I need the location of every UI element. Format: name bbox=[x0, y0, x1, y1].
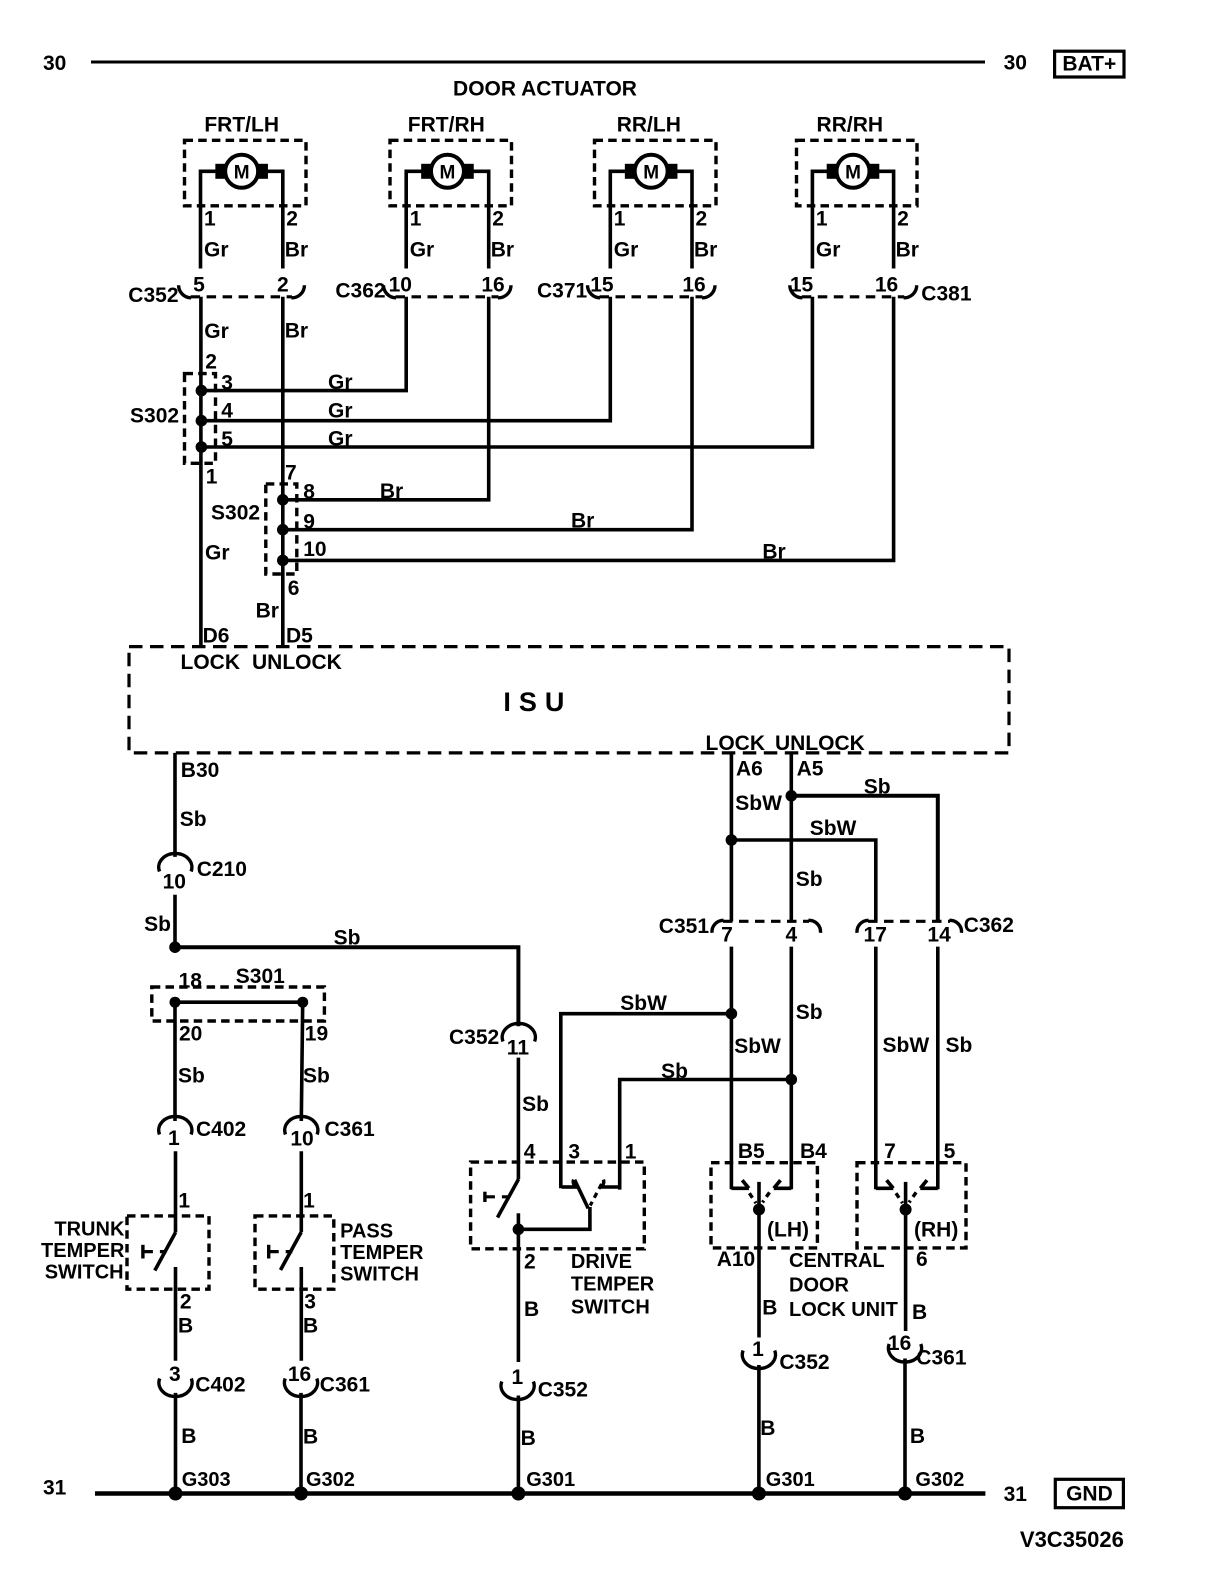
wire Sb bus to drive switch bbox=[175, 947, 518, 1026]
wire Sb S301 pin20 down bbox=[173, 1002, 177, 1121]
svg-text:Gr: Gr bbox=[816, 239, 841, 262]
svg-text:DOOR: DOOR bbox=[789, 1275, 850, 1297]
svg-text:DOOR ACTUATOR: DOOR ACTUATOR bbox=[453, 77, 637, 100]
trunk temper switch box bbox=[127, 1216, 209, 1289]
svg-text:1: 1 bbox=[625, 1141, 637, 1164]
svg-text:16: 16 bbox=[875, 274, 898, 297]
svg-text:7: 7 bbox=[884, 1140, 896, 1163]
wire Sb C351 pin4 to lock unit bbox=[789, 947, 793, 1190]
svg-text:GND: GND bbox=[1066, 1483, 1113, 1506]
svg-text:30: 30 bbox=[1004, 52, 1027, 75]
svg-text:UNLOCK: UNLOCK bbox=[775, 732, 865, 755]
svg-text:G301: G301 bbox=[526, 1469, 575, 1491]
svg-text:1: 1 bbox=[168, 1127, 180, 1150]
svg-text:20: 20 bbox=[179, 1022, 202, 1045]
svg-text:(LH): (LH) bbox=[767, 1219, 809, 1242]
svg-text:Br: Br bbox=[256, 599, 279, 622]
svg-text:2: 2 bbox=[286, 208, 298, 231]
svg-text:6: 6 bbox=[916, 1248, 928, 1271]
lock actuator RH contacts bbox=[876, 1187, 894, 1191]
svg-text:1: 1 bbox=[410, 208, 422, 231]
svg-text:C402: C402 bbox=[196, 1118, 246, 1141]
svg-text:SbW: SbW bbox=[620, 992, 667, 1015]
svg-text:15: 15 bbox=[790, 274, 814, 297]
wire Gr RR/RH pin15 to S302 pin5 bbox=[201, 297, 812, 447]
svg-text:B: B bbox=[303, 1426, 318, 1449]
wire Br FRT/LH pin2 to ISU D5 bbox=[281, 297, 285, 647]
wire trunk switch pin2 down bbox=[174, 1267, 178, 1361]
connector C352 pin11 bbox=[502, 1023, 535, 1041]
svg-text:4: 4 bbox=[221, 400, 233, 423]
svg-text:5: 5 bbox=[193, 274, 205, 297]
svg-text:16: 16 bbox=[682, 274, 705, 297]
wire pass switch pin3 down bbox=[299, 1267, 303, 1361]
svg-text:1: 1 bbox=[206, 466, 218, 489]
connector C352 bbox=[191, 295, 292, 298]
svg-text:B: B bbox=[762, 1297, 777, 1320]
svg-text:C381: C381 bbox=[921, 282, 972, 305]
svg-text:Br: Br bbox=[896, 239, 919, 262]
svg-text:7: 7 bbox=[721, 924, 733, 947]
svg-text:S302: S302 bbox=[130, 404, 179, 427]
wire Sb ISU A5 down bbox=[789, 753, 793, 921]
svg-text:31: 31 bbox=[1004, 1483, 1028, 1506]
wire B to G302 bbox=[299, 1393, 303, 1494]
junction A6 SbW bbox=[726, 834, 738, 846]
svg-text:17: 17 bbox=[864, 924, 887, 947]
svg-text:C361: C361 bbox=[320, 1374, 371, 1397]
svg-text:G301: G301 bbox=[766, 1469, 815, 1491]
wire Gr FRT/RH pin10 to S302 pin3 bbox=[201, 297, 406, 391]
svg-text:DRIVE: DRIVE bbox=[571, 1251, 632, 1273]
motor M RR/LH wire right bbox=[677, 171, 692, 268]
svg-text:8: 8 bbox=[303, 481, 315, 504]
wire Sb S301 pin19 down bbox=[301, 1002, 302, 1121]
svg-text:C352: C352 bbox=[449, 1026, 499, 1049]
svg-text:3: 3 bbox=[169, 1363, 181, 1386]
svg-text:SbW: SbW bbox=[734, 1035, 781, 1058]
svg-text:11: 11 bbox=[507, 1037, 530, 1060]
svg-text:LOCK UNIT: LOCK UNIT bbox=[789, 1299, 898, 1321]
wire 30/BAT+ top rail bbox=[91, 61, 985, 64]
svg-text:RR/RH: RR/RH bbox=[817, 114, 884, 137]
wire to pass switch bbox=[299, 1151, 303, 1232]
door actuator motor RR/RH box bbox=[797, 140, 918, 206]
svg-text:2: 2 bbox=[180, 1291, 192, 1314]
svg-text:B: B bbox=[912, 1301, 927, 1324]
wire SbW C351 pin7 to lock unit bbox=[730, 947, 734, 1190]
motor M FRT/LH symbol bbox=[225, 155, 258, 188]
motor M FRT/RH wire left bbox=[406, 171, 422, 268]
svg-text:2: 2 bbox=[524, 1251, 536, 1274]
svg-text:31: 31 bbox=[43, 1477, 67, 1500]
drive contact 3 blade bbox=[575, 1180, 589, 1209]
drive contact 3 hook bbox=[562, 1185, 576, 1189]
svg-text:Br: Br bbox=[380, 480, 403, 503]
junction Sb drive pin1 bbox=[786, 1074, 798, 1086]
svg-text:5: 5 bbox=[221, 428, 233, 451]
svg-text:19: 19 bbox=[305, 1022, 328, 1045]
connector C351 bbox=[723, 920, 809, 923]
motor M RR/LH wire left bbox=[610, 171, 625, 268]
switch blade pass bbox=[281, 1232, 302, 1270]
motor M RR/RH wire right bbox=[879, 171, 894, 268]
wire SbW A6 to C362 pin17 bbox=[731, 840, 875, 921]
svg-text:Sb: Sb bbox=[796, 1001, 823, 1024]
motor M RR/RH symbol bbox=[837, 155, 870, 188]
connector C352 bottom bbox=[501, 1382, 534, 1400]
door actuator motor FRT/RH box bbox=[390, 140, 512, 206]
wire SbW C362 pin17 to lock unit RH bbox=[874, 947, 878, 1190]
wire Sb below C210 bbox=[173, 895, 177, 948]
svg-text:1: 1 bbox=[816, 208, 828, 231]
svg-text:Br: Br bbox=[762, 541, 785, 564]
svg-text:A10: A10 bbox=[717, 1248, 756, 1271]
drive contact 1 dashed bbox=[590, 1184, 601, 1206]
svg-text:G302: G302 bbox=[915, 1469, 964, 1491]
svg-text:Sb: Sb bbox=[522, 1093, 549, 1116]
wire Gr FRT/LH pin5 to ISU D6 bbox=[199, 297, 203, 647]
svg-text:M: M bbox=[643, 162, 659, 183]
svg-text:S301: S301 bbox=[236, 965, 285, 988]
junction S302 pin9 bbox=[277, 524, 289, 536]
svg-text:Sb: Sb bbox=[178, 1065, 205, 1088]
svg-text:10: 10 bbox=[389, 274, 412, 297]
svg-text:FRT/LH: FRT/LH bbox=[204, 114, 279, 137]
svg-text:Sb: Sb bbox=[864, 776, 891, 799]
svg-text:14: 14 bbox=[927, 924, 951, 947]
svg-text:B: B bbox=[303, 1315, 318, 1338]
svg-text:C362: C362 bbox=[335, 280, 385, 303]
connector C371 bbox=[600, 295, 703, 298]
svg-text:SWITCH: SWITCH bbox=[45, 1262, 124, 1284]
wire Sb to drive switch pin1 bbox=[620, 1080, 792, 1190]
wire to trunk switch bbox=[174, 1151, 178, 1232]
wire 31 ground rail bbox=[95, 1491, 985, 1496]
svg-text:C352: C352 bbox=[128, 284, 178, 307]
power BAT+ bbox=[1055, 51, 1124, 77]
connector C361 bottom bbox=[284, 1379, 317, 1397]
svg-text:C351: C351 bbox=[659, 915, 710, 938]
svg-text:Br: Br bbox=[285, 320, 308, 343]
connector C362 lower bbox=[868, 920, 950, 923]
connector C361 bbox=[285, 1116, 318, 1134]
svg-text:PASS: PASS bbox=[340, 1221, 393, 1243]
svg-text:SWITCH: SWITCH bbox=[340, 1264, 419, 1286]
switch blade trunk bbox=[155, 1233, 176, 1271]
door actuator motor FRT/LH box bbox=[185, 140, 307, 206]
junction S302 pin10 bbox=[277, 555, 289, 567]
junction ground G302 bbox=[294, 1487, 308, 1501]
splice S302 box A bbox=[185, 374, 216, 464]
splice S302 box B bbox=[266, 484, 297, 574]
svg-text:2: 2 bbox=[492, 208, 504, 231]
connector C362 bbox=[396, 295, 499, 298]
svg-text:G303: G303 bbox=[182, 1469, 231, 1491]
motor M RR/LH symbol bbox=[635, 155, 668, 188]
svg-text:Gr: Gr bbox=[204, 320, 229, 343]
wire B to G302 right bbox=[903, 1359, 907, 1494]
wire drive selector bbox=[518, 1207, 590, 1229]
svg-text:10: 10 bbox=[290, 1128, 313, 1151]
junction ground G302 right bbox=[898, 1487, 912, 1501]
svg-text:Sb: Sb bbox=[144, 913, 171, 936]
svg-text:Sb: Sb bbox=[334, 927, 361, 950]
svg-text:2: 2 bbox=[205, 351, 217, 374]
svg-text:B: B bbox=[181, 1425, 196, 1448]
drive contact 1 hook bbox=[601, 1185, 620, 1189]
motor M RR/RH wire left bbox=[812, 171, 827, 268]
junction ground G301 bbox=[511, 1487, 525, 1501]
junction A5 Sb bbox=[786, 790, 798, 802]
svg-text:16: 16 bbox=[288, 1363, 311, 1386]
svg-text:S302: S302 bbox=[211, 502, 260, 525]
junction S301 pin19 bbox=[297, 997, 308, 1008]
svg-text:1: 1 bbox=[512, 1366, 524, 1389]
switch actuator trunk bbox=[141, 1245, 144, 1259]
wire B to G303 bbox=[174, 1393, 178, 1494]
svg-text:B30: B30 bbox=[181, 759, 220, 782]
ISU box bbox=[129, 647, 1009, 753]
svg-text:A6: A6 bbox=[736, 758, 763, 781]
svg-text:4: 4 bbox=[785, 924, 797, 947]
svg-text:B: B bbox=[760, 1417, 775, 1440]
wire SbW ISU A6 down bbox=[730, 753, 734, 921]
svg-text:TRUNK: TRUNK bbox=[54, 1219, 125, 1241]
svg-text:C371: C371 bbox=[537, 280, 588, 303]
connector C402 bottom bbox=[159, 1379, 192, 1397]
svg-text:2: 2 bbox=[277, 274, 289, 297]
ground GND bbox=[1055, 1479, 1123, 1507]
svg-text:LOCK: LOCK bbox=[706, 732, 766, 755]
svg-text:C402: C402 bbox=[195, 1374, 245, 1397]
junction S302 pin3 bbox=[196, 385, 208, 397]
svg-text:C361: C361 bbox=[916, 1347, 967, 1370]
svg-text:B: B bbox=[910, 1425, 925, 1448]
svg-text:18: 18 bbox=[179, 970, 203, 993]
svg-text:3: 3 bbox=[221, 372, 233, 395]
svg-text:Sb: Sb bbox=[180, 808, 207, 831]
lock actuator LH contacts bbox=[731, 1187, 749, 1191]
svg-text:SWITCH: SWITCH bbox=[571, 1297, 650, 1319]
svg-text:1: 1 bbox=[204, 208, 216, 231]
wire Sb C362 pin14 to lock unit RH bbox=[936, 947, 940, 1190]
wire B to G301 bbox=[517, 1396, 521, 1494]
switch actuator drive bbox=[483, 1192, 486, 1202]
svg-text:Gr: Gr bbox=[328, 371, 353, 394]
svg-text:TEMPER: TEMPER bbox=[41, 1240, 125, 1262]
wire SbW to drive switch pin3 bbox=[561, 1014, 732, 1188]
junction S302 pin8 bbox=[277, 494, 289, 506]
door actuator motor RR/LH box bbox=[595, 140, 717, 206]
junction SbW drive pin3 bbox=[726, 1008, 738, 1020]
svg-text:CENTRAL: CENTRAL bbox=[789, 1250, 885, 1272]
svg-text:2: 2 bbox=[696, 208, 708, 231]
svg-text:6: 6 bbox=[288, 577, 300, 600]
splice S301 box bbox=[152, 987, 325, 1021]
svg-text:Gr: Gr bbox=[328, 400, 353, 423]
svg-text:M: M bbox=[234, 162, 250, 183]
wire S301 internal bbox=[175, 1000, 303, 1004]
switch blade drive bbox=[498, 1179, 519, 1218]
svg-text:Gr: Gr bbox=[328, 428, 353, 451]
svg-text:15: 15 bbox=[590, 274, 614, 297]
central door lock unit RH box bbox=[857, 1163, 966, 1248]
wire B lock unit LH down bbox=[757, 1210, 761, 1338]
svg-text:M: M bbox=[440, 162, 456, 183]
svg-text:C210: C210 bbox=[197, 858, 247, 881]
svg-text:Gr: Gr bbox=[614, 239, 639, 262]
svg-text:Sb: Sb bbox=[796, 868, 823, 891]
svg-text:Gr: Gr bbox=[204, 239, 229, 262]
wire Sb A5 to C362 pin14 bbox=[791, 796, 938, 922]
svg-text:D5: D5 bbox=[286, 625, 313, 648]
svg-text:V3C35026: V3C35026 bbox=[1020, 1527, 1124, 1552]
svg-text:M: M bbox=[845, 162, 861, 183]
svg-text:10: 10 bbox=[163, 871, 186, 894]
junction S302 pin4 bbox=[196, 415, 208, 427]
central door lock unit LH box bbox=[711, 1163, 817, 1248]
wire B to G301 right bbox=[757, 1365, 761, 1494]
motor M FRT/LH wire right bbox=[267, 171, 283, 268]
svg-text:1: 1 bbox=[752, 1338, 764, 1361]
svg-text:B: B bbox=[521, 1427, 536, 1450]
svg-text:5: 5 bbox=[944, 1140, 956, 1163]
junction S301 pin18 bbox=[170, 997, 181, 1008]
svg-text:B4: B4 bbox=[800, 1140, 827, 1163]
motor M FRT/RH wire right bbox=[473, 171, 489, 268]
svg-text:(RH): (RH) bbox=[914, 1219, 958, 1242]
svg-text:B: B bbox=[178, 1315, 193, 1338]
wire B lock unit RH down bbox=[904, 1210, 908, 1332]
wire drive common bbox=[517, 1213, 521, 1229]
svg-text:C362: C362 bbox=[964, 914, 1014, 937]
drive temper switch box bbox=[471, 1162, 645, 1249]
svg-text:A5: A5 bbox=[797, 758, 824, 781]
svg-text:B5: B5 bbox=[738, 1140, 765, 1163]
svg-text:9: 9 bbox=[303, 511, 315, 534]
svg-text:16: 16 bbox=[888, 1332, 911, 1355]
svg-text:RR/LH: RR/LH bbox=[617, 114, 681, 137]
svg-text:3: 3 bbox=[568, 1141, 580, 1164]
wire Br RR/LH pin16 to S302 pin9 bbox=[283, 297, 692, 530]
wire Br RR/RH pin16 to S302 pin10 bbox=[283, 297, 894, 561]
wire Br FRT/RH pin16 to S302 pin8 bbox=[283, 297, 489, 500]
svg-text:16: 16 bbox=[481, 274, 504, 297]
switch actuator pass bbox=[267, 1245, 270, 1259]
svg-text:G302: G302 bbox=[306, 1469, 355, 1491]
svg-text:1: 1 bbox=[178, 1190, 190, 1213]
svg-text:FRT/RH: FRT/RH bbox=[408, 114, 485, 137]
svg-text:UNLOCK: UNLOCK bbox=[252, 651, 342, 674]
svg-text:1: 1 bbox=[614, 208, 626, 231]
svg-text:10: 10 bbox=[303, 538, 326, 561]
connector C402 bbox=[159, 1116, 192, 1134]
svg-text:7: 7 bbox=[285, 461, 297, 484]
connector C210 bbox=[159, 853, 192, 871]
svg-text:2: 2 bbox=[897, 208, 909, 231]
svg-text:Gr: Gr bbox=[205, 541, 230, 564]
svg-text:TEMPER: TEMPER bbox=[340, 1242, 424, 1264]
junction ground G303 bbox=[169, 1487, 183, 1501]
motor M FRT/LH wire left bbox=[201, 171, 217, 268]
wire drive switch pin2 down bbox=[517, 1229, 521, 1362]
svg-text:Br: Br bbox=[571, 510, 594, 533]
svg-text:Sb: Sb bbox=[661, 1060, 688, 1083]
svg-text:TEMPER: TEMPER bbox=[571, 1274, 655, 1296]
connector C361 right bottom bbox=[888, 1344, 921, 1362]
connector C352 right bottom bbox=[742, 1351, 775, 1369]
svg-text:BAT+: BAT+ bbox=[1062, 53, 1116, 76]
wire Sb to drive switch bbox=[517, 1058, 521, 1179]
svg-text:C352: C352 bbox=[779, 1351, 829, 1374]
svg-text:C361: C361 bbox=[325, 1118, 376, 1141]
svg-text:B: B bbox=[524, 1298, 539, 1321]
pass temper switch box bbox=[255, 1216, 334, 1289]
svg-text:SbW: SbW bbox=[883, 1034, 930, 1057]
wire Sb ISU B30 down bbox=[173, 753, 177, 857]
svg-text:Br: Br bbox=[491, 239, 514, 262]
svg-text:4: 4 bbox=[524, 1141, 536, 1164]
junction Sb bus bbox=[169, 941, 181, 953]
wire Gr RR/LH pin15 to S302 pin4 bbox=[201, 297, 610, 421]
svg-text:Gr: Gr bbox=[410, 239, 435, 262]
svg-text:LOCK: LOCK bbox=[181, 651, 241, 674]
svg-text:Sb: Sb bbox=[946, 1034, 973, 1057]
svg-text:3: 3 bbox=[304, 1291, 316, 1314]
svg-text:30: 30 bbox=[43, 52, 66, 75]
svg-text:SbW: SbW bbox=[810, 817, 857, 840]
svg-text:Sb: Sb bbox=[303, 1065, 330, 1088]
svg-text:D6: D6 bbox=[203, 625, 230, 648]
svg-text:Br: Br bbox=[694, 239, 717, 262]
svg-text:Br: Br bbox=[285, 239, 308, 262]
svg-text:1: 1 bbox=[303, 1190, 315, 1213]
svg-text:ISU: ISU bbox=[503, 687, 572, 717]
junction ground G301 right bbox=[752, 1487, 766, 1501]
svg-text:C352: C352 bbox=[538, 1379, 588, 1402]
connector C381 bbox=[802, 295, 904, 298]
motor M FRT/RH symbol bbox=[431, 155, 464, 188]
junction drive switch bbox=[513, 1224, 525, 1236]
junction S302 pin5 bbox=[196, 441, 208, 453]
svg-text:SbW: SbW bbox=[735, 792, 782, 815]
